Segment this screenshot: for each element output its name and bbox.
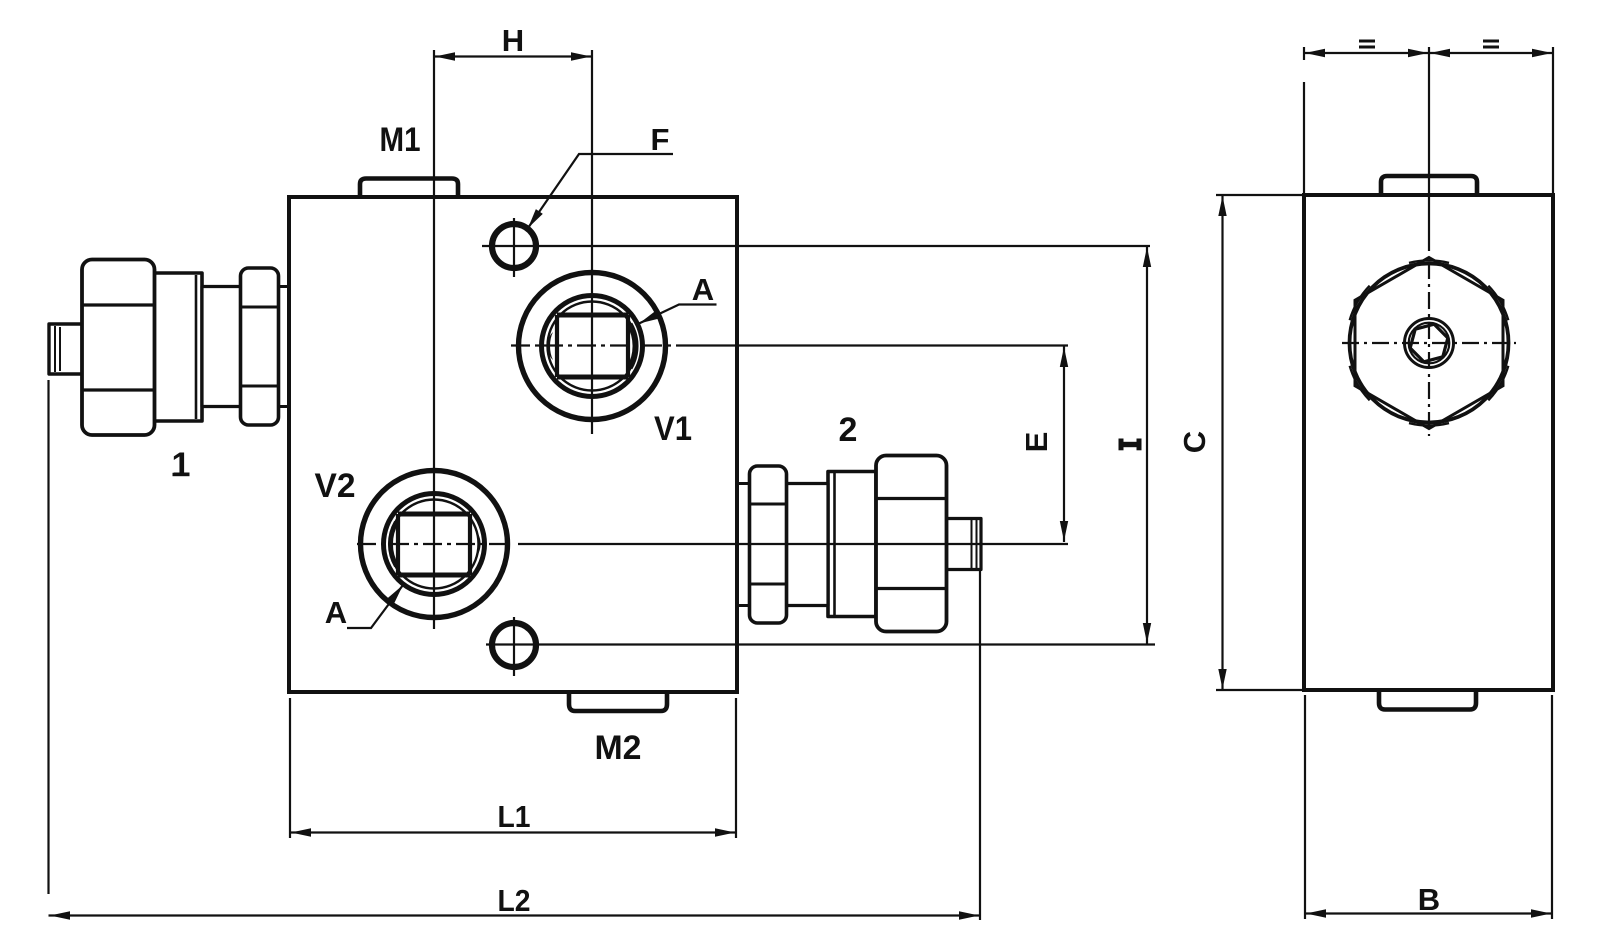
svg-text:V2: V2 <box>315 467 356 505</box>
svg-text:A: A <box>692 272 714 307</box>
svg-text:M2: M2 <box>595 729 642 767</box>
svg-text:2: 2 <box>839 411 858 449</box>
svg-text:1: 1 <box>172 446 191 484</box>
svg-text:M1: M1 <box>380 121 421 159</box>
svg-text:A: A <box>325 595 347 630</box>
svg-text:L1: L1 <box>498 799 531 834</box>
svg-text:C: C <box>1177 431 1212 453</box>
svg-text:F: F <box>651 122 670 157</box>
svg-text:E: E <box>1019 432 1054 453</box>
svg-text:L2: L2 <box>498 883 531 918</box>
svg-text:V1: V1 <box>654 410 692 448</box>
svg-text:H: H <box>502 23 524 58</box>
svg-text:B: B <box>1418 882 1440 917</box>
